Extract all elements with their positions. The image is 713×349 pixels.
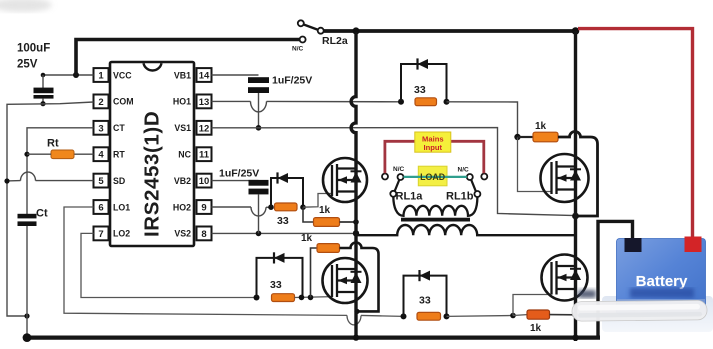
transistor Q4 MOSFET lower-right	[542, 255, 588, 301]
node top rail left bridge	[352, 27, 359, 34]
node ground rail start	[23, 333, 32, 342]
svg-text:HO2: HO2	[173, 202, 191, 212]
node 1k tap (lower-left)	[308, 295, 314, 301]
node 100uF to COM	[40, 101, 45, 106]
resistor Rt	[51, 150, 74, 159]
node VCC junction	[73, 72, 79, 78]
svg-text:8: 8	[201, 229, 206, 240]
diode D2 across 33 (upper-left)	[271, 172, 303, 206]
svg-text:NC: NC	[178, 150, 191, 160]
svg-text:6: 6	[98, 203, 103, 214]
wire top positive rail (thick)	[324, 29, 576, 33]
svg-text:5: 5	[98, 176, 104, 187]
svg-text:33: 33	[277, 215, 289, 227]
wire VCC riser to relay N/C (thick)	[76, 40, 300, 77]
node gate upper-right	[514, 134, 520, 140]
diode D4 across 33 (lower-right)	[404, 270, 447, 316]
wire COM pin2 left and down left edge	[7, 102, 94, 316]
svg-text:HO1: HO1	[173, 97, 191, 107]
node LO2 at 33 left (lower-left)	[254, 295, 260, 301]
watermark erase pill	[572, 300, 707, 321]
wire CT pin3 left/down to Ct	[27, 128, 94, 214]
wire red battery positive to top rail	[578, 29, 693, 238]
pin 2 COM	[94, 95, 134, 109]
wire HO2 pin9 with dip under cap wire	[212, 207, 272, 216]
node 33 right (lower-left)	[299, 295, 305, 301]
battery positive terminal	[685, 237, 702, 253]
wire left bridge rail with hops	[351, 32, 356, 338]
op-amp driver IC U1 IRS2453(1)D body	[110, 62, 194, 246]
svg-text:33: 33	[414, 84, 426, 96]
svg-text:10: 10	[199, 176, 210, 187]
svg-text:100uF: 100uF	[17, 43, 50, 55]
battery body	[617, 239, 706, 315]
svg-text:9: 9	[201, 203, 206, 214]
hidden watermark text under battery	[578, 288, 694, 298]
wire bottom ground rail (thick)	[27, 336, 600, 340]
node SD to COM line	[4, 178, 9, 183]
svg-text:CT: CT	[113, 123, 125, 133]
wire gate lower-right	[513, 295, 551, 316]
node lower-left source to ground	[353, 334, 359, 340]
wire LO1 pin6 down and right to gate network	[64, 207, 404, 325]
node LO1 at 33 resistor left	[401, 313, 407, 319]
wire right bridge rail	[574, 31, 577, 341]
relay RL2a switch	[298, 20, 324, 42]
wire battery negative to ground rail (thick)	[598, 221, 633, 336]
svg-text:VS2: VS2	[174, 229, 191, 239]
node VS1 source junction	[572, 213, 579, 220]
wire gate upper-left	[303, 194, 333, 208]
svg-text:3: 3	[98, 123, 103, 134]
svg-text:RT: RT	[113, 150, 125, 160]
svg-text:7: 7	[98, 229, 103, 240]
wire mains red right	[451, 141, 484, 173]
pin 10 VB2	[174, 174, 212, 188]
svg-text:LO1: LO1	[113, 202, 130, 212]
node VCC cap tap	[41, 73, 46, 78]
svg-text:N/C: N/C	[458, 166, 470, 173]
diode D3 across 33 (lower-left)	[257, 252, 303, 297]
pin 13 HO1	[173, 95, 212, 109]
node 1k to source lower-right	[572, 312, 578, 318]
pin 14 VB1	[174, 68, 212, 82]
pin 5 SD	[94, 174, 126, 188]
watermark smudge top-left	[0, 0, 52, 12]
resistor 1k (lower-right gate-source)	[513, 310, 575, 319]
node VS2 rail junction	[353, 230, 359, 236]
svg-text:1: 1	[98, 71, 104, 82]
wire LO2 pin7 down and right	[81, 233, 257, 297]
svg-text:VB2: VB2	[174, 176, 191, 186]
battery negative terminal	[625, 238, 642, 252]
svg-text:LOAD: LOAD	[420, 172, 445, 182]
svg-text:33: 33	[419, 295, 431, 307]
wire 33 to gate nodes (lower-left)	[295, 296, 333, 299]
diode D1 across 33 (upper-right)	[401, 58, 447, 101]
svg-text:4: 4	[98, 150, 104, 161]
transformer T1 secondary winding	[393, 197, 477, 216]
node VB1 cap to VS1	[256, 125, 262, 131]
node HO1 33 left	[398, 99, 404, 105]
svg-text:14: 14	[199, 71, 210, 82]
transformer T1 core	[401, 218, 470, 222]
wire mains red left	[385, 141, 415, 173]
svg-text:VB1: VB1	[174, 70, 191, 80]
resistor 33 (upper-right gate)	[415, 98, 437, 106]
svg-text:IRS2453(1)D: IRS2453(1)D	[141, 111, 164, 237]
svg-text:Rt: Rt	[47, 138, 59, 150]
node lower-right source to ground	[572, 334, 578, 340]
svg-text:1uF/25V: 1uF/25V	[272, 75, 312, 87]
node HO1 33 right	[444, 99, 450, 105]
watermark erase soft left block	[440, 252, 550, 254]
label box Mains Input	[415, 132, 451, 152]
node top rail right bridge	[572, 27, 580, 35]
pin 7 LO2	[94, 227, 131, 241]
svg-text:13: 13	[199, 97, 210, 108]
svg-text:RL1b: RL1b	[446, 191, 474, 203]
node VS2 cap tap	[256, 231, 262, 237]
transformer T1 primary winding	[358, 225, 575, 235]
wire to lower-right gate node	[447, 315, 514, 318]
capacitor Ct	[18, 214, 37, 337]
node wrap to source (lower-left)	[354, 309, 359, 314]
value label 100uF 25V	[17, 43, 50, 71]
label box LOAD with teal wire through	[404, 166, 467, 186]
wire HO1 to gate node upper-right	[447, 102, 518, 137]
svg-text:33: 33	[270, 279, 282, 291]
svg-text:2: 2	[98, 97, 103, 108]
resistor 33 (upper-left gate)	[275, 203, 298, 211]
resistor 1k (upper-left gate-source)	[303, 207, 356, 226]
transistor Q2 MOSFET upper-right	[541, 154, 589, 202]
wire RT pin4 to Rt	[74, 153, 94, 155]
pin 11 NC	[178, 147, 211, 161]
capacitor 1uF/25V (VB1 bootstrap)	[212, 75, 270, 128]
svg-text:SD: SD	[113, 176, 125, 186]
node COM to ground riser	[24, 313, 29, 318]
wire VS2 pin8	[212, 232, 357, 234]
svg-text:11: 11	[199, 150, 210, 161]
resistor 33 (lower-left gate)	[272, 294, 295, 302]
svg-text:Battery: Battery	[636, 273, 688, 290]
svg-text:VCC: VCC	[113, 70, 132, 80]
node gate lower-right	[510, 313, 516, 319]
svg-text:25V: 25V	[17, 59, 38, 71]
capacitor 1uF/25V (VB2 bootstrap)	[212, 180, 269, 234]
node HO2 gate node	[300, 204, 306, 210]
wire HO1 pin13 with dip under cap wire	[212, 101, 402, 112]
relay RL1b contacts	[467, 174, 488, 198]
pin 12 VS1	[174, 121, 211, 135]
svg-text:LO2: LO2	[113, 229, 130, 239]
resistor 1k (lower-left gate-source) with wrap to source	[311, 243, 379, 312]
node HO2 33 left	[268, 204, 274, 210]
svg-text:1k: 1k	[301, 233, 313, 244]
pin 4 RT	[94, 147, 126, 161]
svg-text:N/C: N/C	[292, 46, 304, 53]
svg-text:1k: 1k	[530, 323, 542, 334]
resistor 33 (lower-right gate)	[417, 312, 441, 320]
svg-text:N/C: N/C	[393, 166, 405, 173]
svg-text:RL1a: RL1a	[396, 191, 424, 203]
svg-text:1k: 1k	[535, 121, 547, 132]
svg-text:RL2a: RL2a	[322, 35, 348, 47]
pin 8 VS2	[174, 227, 211, 241]
transistor Q1 MOSFET upper-left	[323, 158, 367, 202]
wire Rt to CT node	[27, 153, 51, 155]
pin 3 CT	[94, 121, 126, 135]
battery tray/base	[602, 296, 713, 332]
node CT/RT junction	[24, 152, 29, 157]
capacitor 100uF 25V	[34, 75, 54, 104]
pin 6 LO1	[94, 200, 131, 214]
pin 9 HO2	[173, 200, 212, 214]
wire VCC pin1 to node	[43, 74, 94, 76]
svg-text:COM: COM	[113, 97, 134, 107]
resistor 1k (upper-right gate-source) with wrap	[518, 132, 598, 217]
svg-text:VS1: VS1	[174, 123, 191, 133]
relay RL1a contacts	[382, 174, 404, 197]
transistor Q3 MOSFET lower-left	[323, 258, 368, 303]
node 1k to rail (upper-left source)	[353, 219, 359, 225]
pin 1 VCC	[94, 68, 133, 82]
svg-text:Input: Input	[424, 143, 443, 152]
svg-text:12: 12	[199, 123, 210, 134]
node 33 right (lower-right)	[444, 313, 450, 319]
svg-text:Ct: Ct	[36, 208, 48, 220]
svg-text:1k: 1k	[319, 205, 331, 216]
wire SD pin5 with hop over CT line	[7, 172, 94, 181]
wire gate upper-right	[518, 137, 552, 192]
wire VS1 pin12 right, down, to source node	[212, 128, 576, 216]
svg-text:1uF/25V: 1uF/25V	[219, 168, 259, 180]
